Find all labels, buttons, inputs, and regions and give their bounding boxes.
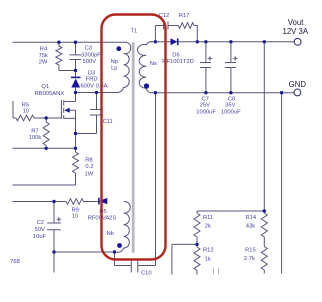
wire GND right drop	[281, 93, 283, 274]
wire secondary top to D6	[150, 41, 171, 43]
svg-text:Q1: Q1	[41, 84, 49, 90]
svg-text:RB005ANX: RB005ANX	[35, 91, 65, 97]
svg-text:50V: 50V	[35, 227, 45, 233]
svg-text:C7: C7	[201, 97, 208, 103]
node R8 top rail	[74, 147, 77, 150]
resistor R7	[43, 118, 49, 148]
wire R14 R15 link	[263, 237, 265, 274]
node R11/R12 junction	[195, 243, 198, 246]
node R4 top on DC bus	[57, 41, 60, 44]
capacitor C7	[200, 56, 212, 67]
svg-text:C3: C3	[85, 46, 92, 52]
svg-text:FRD: FRD	[86, 77, 98, 83]
node source / C11 bottom	[74, 132, 77, 135]
wire primary-bottom to drain node	[76, 92, 118, 94]
node gate R5/R7	[45, 116, 48, 119]
svg-text:75k: 75k	[39, 53, 48, 59]
node secondary top / C12 tap	[154, 40, 157, 43]
resistor R17	[178, 23, 194, 29]
wire divider top link	[197, 211, 264, 213]
transformer T1 primary winding Np	[116, 42, 131, 92]
wire bottom aux return	[54, 251, 116, 253]
wire rail R8 bottom	[13, 173, 76, 185]
wire C7 leads	[205, 42, 207, 93]
transformer polarity dot primary	[116, 46, 121, 51]
svg-text:R15: R15	[245, 248, 256, 254]
transformer T1 secondary winding Ns	[138, 42, 152, 93]
resistor R9	[66, 199, 84, 205]
transformer polarity dot secondary	[144, 83, 149, 88]
node C3 top on DC bus	[74, 41, 77, 44]
wire GND rail	[150, 92, 294, 94]
svg-text:R17: R17	[179, 13, 190, 19]
svg-text:500V: 500V	[83, 59, 97, 65]
node drain / D3 anode	[74, 91, 77, 94]
svg-text:2.7k: 2.7k	[244, 256, 255, 262]
node GND rail right drop	[280, 91, 283, 94]
wire top DC bus rail	[13, 41, 125, 43]
svg-text:R7: R7	[31, 128, 38, 134]
wire rail R7 bottom	[13, 147, 76, 149]
wire R4/C3 bottom link	[59, 65, 76, 71]
svg-text:12V 3A: 12V 3A	[283, 27, 309, 36]
svg-text:D6: D6	[172, 52, 179, 58]
resistor R5	[16, 115, 34, 121]
capacitor C2	[47, 217, 61, 230]
svg-text:768: 768	[10, 259, 20, 265]
svg-text:Lp: Lp	[111, 65, 117, 71]
svg-text:C8: C8	[228, 97, 235, 103]
svg-text:C11: C11	[103, 119, 113, 125]
highlight box around transformer	[102, 15, 166, 260]
svg-text:1W: 1W	[85, 172, 94, 178]
node R7 bottom rail	[45, 147, 48, 150]
resistor R8	[73, 148, 79, 173]
wire C2 branch	[53, 202, 55, 273]
node C2 bottom	[52, 250, 55, 253]
svg-text:2k: 2k	[205, 224, 211, 230]
capacitor C10	[131, 260, 138, 273]
svg-text:Vout: Vout	[288, 18, 304, 27]
svg-text:T1: T1	[131, 29, 138, 35]
stray marks bottom right	[214, 269, 219, 275]
svg-text:1000uF: 1000uF	[196, 110, 216, 116]
svg-text:GND: GND	[289, 80, 307, 89]
diode D5	[99, 198, 107, 205]
diode D3	[71, 77, 81, 87]
svg-text:RF1001T2D: RF1001T2D	[162, 59, 194, 65]
wire C11 branch	[76, 93, 97, 134]
svg-text:1k: 1k	[205, 256, 211, 262]
svg-text:0.2: 0.2	[85, 164, 93, 170]
node R17 return on Vout rail	[196, 40, 199, 43]
svg-text:Np: Np	[111, 59, 118, 65]
transistor Q1	[61, 100, 75, 119]
capacitor C11	[90, 110, 103, 116]
node feedback tap on Vout rail	[263, 40, 266, 43]
svg-text:D3: D3	[88, 71, 95, 77]
diode D6	[171, 38, 178, 45]
wire output rail	[178, 41, 295, 43]
wire C3/D3 column	[75, 42, 77, 101]
node R11/R14 top	[263, 209, 266, 212]
svg-text:25V: 25V	[200, 103, 210, 109]
svg-text:C10: C10	[141, 271, 152, 277]
node snubber bottom	[74, 69, 77, 72]
capacitor C8	[225, 56, 238, 67]
node C8 top	[229, 40, 232, 43]
wire gate net	[13, 101, 61, 118]
svg-text:Ns: Ns	[150, 61, 157, 67]
resistor R14	[261, 213, 267, 237]
svg-text:10: 10	[23, 109, 29, 115]
wire C12/R17 snubber loop	[155, 26, 197, 42]
svg-text:R11: R11	[203, 215, 213, 221]
wire R11 R12 node	[172, 237, 197, 275]
svg-text:R4: R4	[40, 46, 48, 52]
terminal GND	[294, 89, 301, 96]
resistor R15	[261, 247, 267, 271]
resistor R12	[194, 247, 200, 271]
wire C8 leads	[230, 42, 232, 93]
node C8 bottom	[229, 91, 232, 94]
node GND rail / C10 drop	[154, 91, 157, 94]
transformer T1 auxiliary winding Nb	[117, 201, 131, 252]
svg-text:35V: 35V	[225, 103, 235, 109]
svg-text:10uF: 10uF	[33, 234, 47, 240]
svg-text:2W: 2W	[39, 60, 48, 66]
node Nb return	[113, 250, 116, 253]
terminal Vout	[294, 38, 301, 45]
svg-text:1000uF: 1000uF	[221, 110, 241, 116]
svg-text:3300pF: 3300pF	[81, 53, 101, 59]
node C11 top tap	[95, 91, 98, 94]
svg-text:C2: C2	[37, 220, 44, 226]
svg-text:43k: 43k	[246, 224, 255, 230]
wire C10 branch	[115, 93, 156, 266]
transformer T1 core	[132, 42, 135, 253]
svg-text:100k: 100k	[29, 135, 42, 141]
svg-text:600V 0.5A: 600V 0.5A	[80, 84, 107, 90]
wire R9 rail	[13, 201, 99, 203]
svg-text:R14: R14	[246, 215, 257, 221]
transformer polarity dot Nb	[117, 243, 122, 248]
resistor R4	[56, 42, 62, 65]
node C7 top	[204, 40, 207, 43]
capacitor C12	[164, 22, 168, 30]
capacitor C3	[70, 55, 82, 60]
wire source column	[75, 110, 77, 148]
svg-text:R12: R12	[203, 248, 214, 254]
svg-text:Nb: Nb	[106, 231, 113, 237]
wire feedback drop from Vout	[263, 42, 265, 213]
svg-text:10: 10	[72, 213, 78, 219]
svg-text:R8: R8	[85, 158, 92, 164]
node C7 bottom	[204, 91, 207, 94]
resistor R11	[194, 213, 200, 237]
node C2 top	[52, 200, 55, 203]
